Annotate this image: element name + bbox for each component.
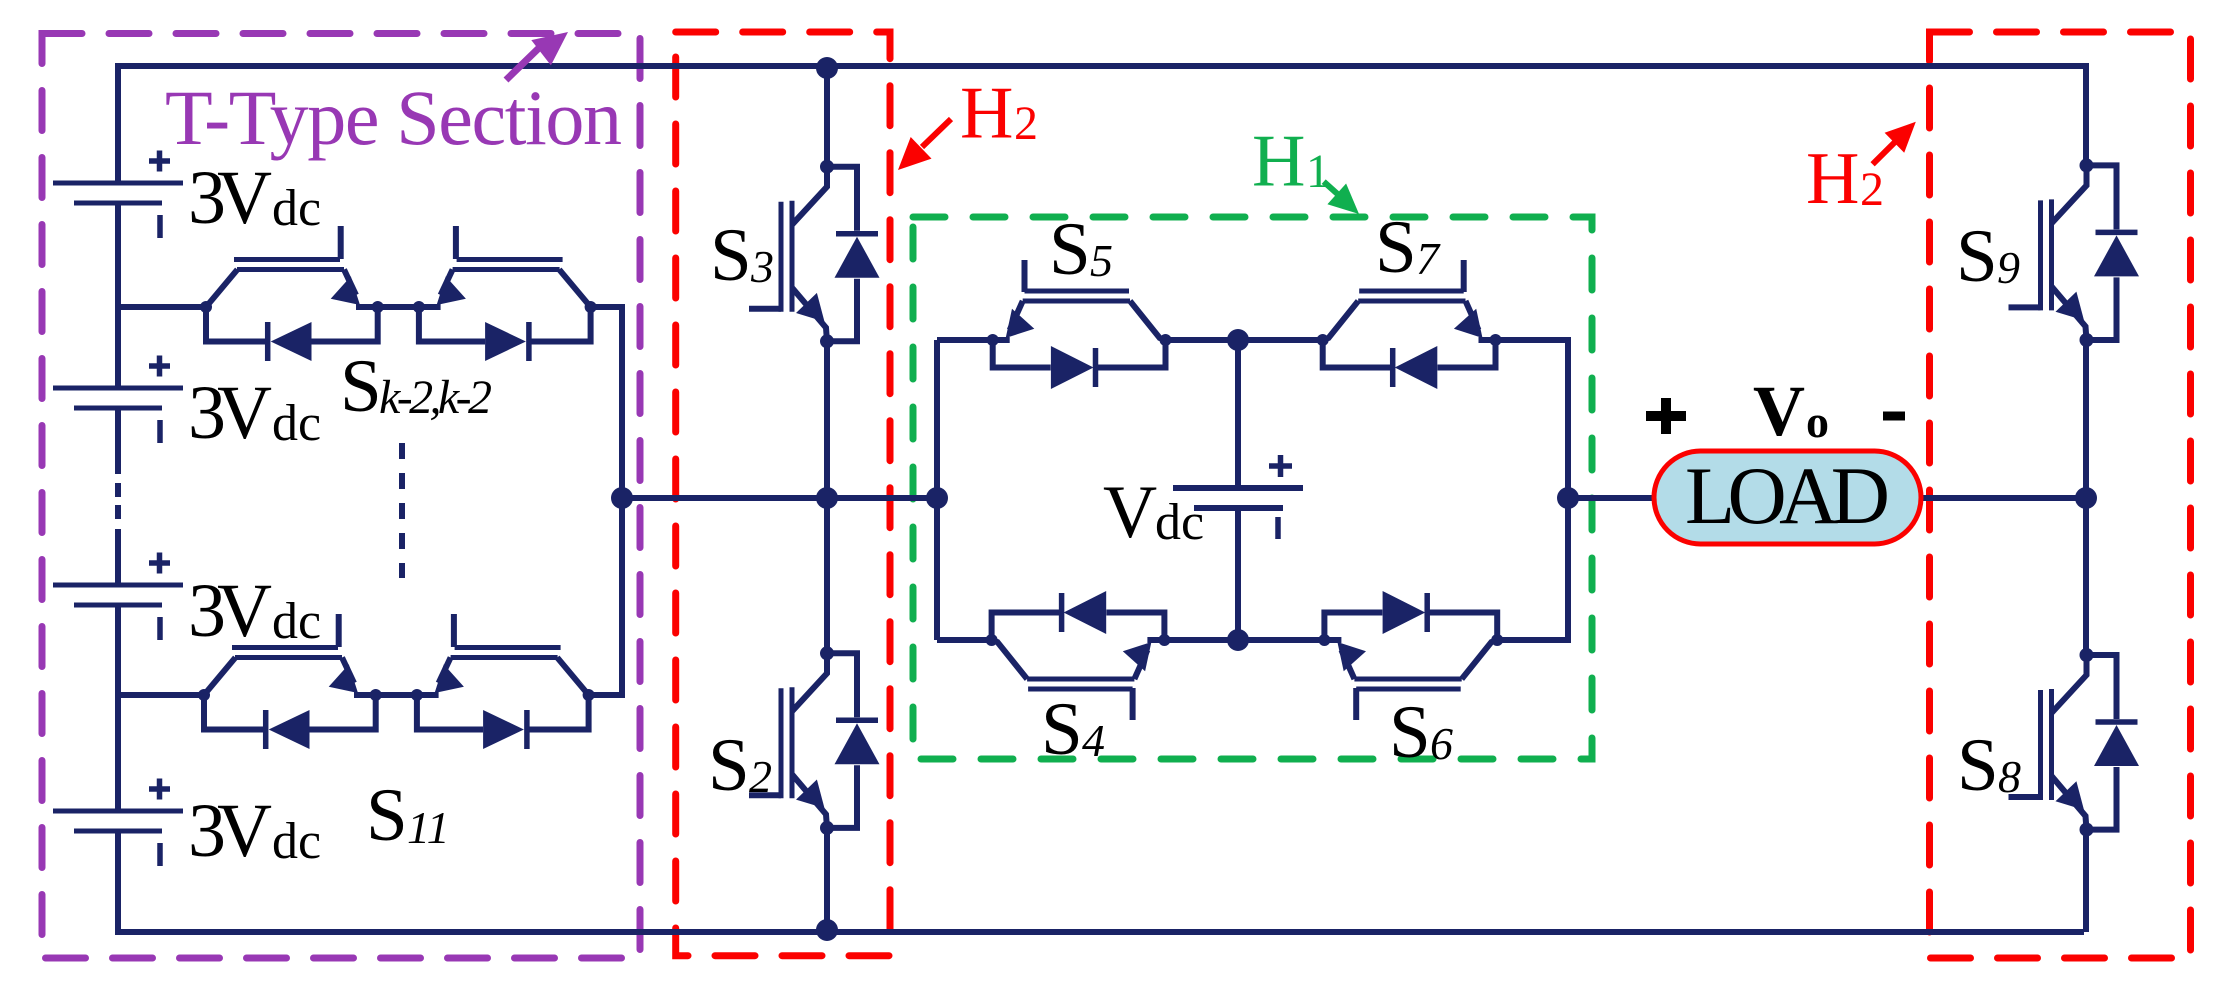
IGBT S9 with antiparallel diode bbox=[2009, 158, 2140, 347]
IGBT S7 with antiparallel diode bbox=[1317, 260, 1502, 389]
svg-text:H: H bbox=[1252, 121, 1305, 203]
wire S3-S2 leg middle bbox=[824, 341, 830, 654]
bidirectional switch S_k-2,k-2 bbox=[200, 226, 597, 361]
wire S8 leg bottom bbox=[2083, 830, 2089, 932]
IGBT S8 with antiparallel diode bbox=[2009, 648, 2140, 837]
battery B2 3Vdc bbox=[53, 356, 183, 444]
svg-text:2: 2 bbox=[1860, 163, 1884, 216]
svg-text:9: 9 bbox=[1997, 242, 2020, 293]
wire top rail bbox=[118, 63, 2086, 69]
svg-text:LOAD: LOAD bbox=[1685, 450, 1890, 541]
svg-text:3V: 3V bbox=[188, 371, 272, 455]
svg-text:V: V bbox=[1103, 471, 1157, 554]
wire H1 output to LOAD bbox=[1568, 495, 1654, 501]
IGBT S2 with antiparallel diode bbox=[749, 646, 880, 835]
svg-text:3V: 3V bbox=[188, 156, 272, 240]
svg-text:k-2,k-2: k-2,k-2 bbox=[379, 371, 492, 424]
svg-text:S: S bbox=[1375, 206, 1417, 289]
wire bottom rail bbox=[118, 929, 2084, 935]
svg-text:2: 2 bbox=[1014, 97, 1038, 150]
IGBT S3 with antiparallel diode bbox=[749, 160, 880, 349]
wire H1 top-left branch bbox=[937, 337, 993, 343]
svg-text:o: o bbox=[1806, 396, 1829, 447]
svg-text:2: 2 bbox=[749, 751, 772, 802]
svg-text:S: S bbox=[708, 724, 750, 807]
wire upper switch to T-rail bbox=[590, 304, 622, 310]
svg-text:S: S bbox=[1049, 208, 1091, 291]
IGBT S5 with antiparallel diode bbox=[987, 260, 1172, 389]
node H2 right midpoint bbox=[2075, 487, 2097, 509]
svg-text:6: 6 bbox=[1430, 718, 1453, 769]
wire T-type output to H2 leg and H1 bbox=[622, 495, 937, 501]
svg-text:3V: 3V bbox=[188, 789, 272, 873]
wire H1 bottom-right branch bbox=[1497, 637, 1568, 643]
wire H1 right vertical bbox=[1565, 337, 1571, 643]
node H1 left midpoint bbox=[926, 487, 948, 509]
svg-text:H: H bbox=[1806, 138, 1859, 220]
LOAD block bbox=[1654, 451, 1921, 544]
arrow H2 right pointer bbox=[1873, 142, 1895, 164]
wire lower switch to T-rail bbox=[588, 692, 622, 698]
wire tap to upper bidirectional switch bbox=[118, 304, 206, 310]
svg-text:3: 3 bbox=[750, 241, 774, 292]
node H1 right midpoint bbox=[1557, 487, 1579, 509]
svg-text:H: H bbox=[960, 73, 1013, 155]
wire tap to lower bidirectional switch bbox=[118, 692, 204, 698]
wire S9-S8 leg middle bbox=[2083, 340, 2089, 655]
wire left rail segment (B1 to B2) bbox=[115, 203, 121, 388]
wire S2 leg bottom bbox=[824, 829, 830, 932]
svg-text:S: S bbox=[1957, 724, 1999, 807]
svg-text:T-Type Section: T-Type Section bbox=[165, 74, 622, 161]
IGBT S6 with antiparallel diode bbox=[1318, 591, 1503, 720]
node T-type output bbox=[611, 487, 633, 509]
wire S3 leg top bbox=[824, 66, 830, 167]
svg-text:S: S bbox=[710, 214, 752, 297]
label + (Vo polarity) bbox=[1646, 398, 1686, 434]
wire left rail segment (B3 to B4, with T-tap) bbox=[115, 605, 121, 811]
svg-text:5: 5 bbox=[1090, 235, 1113, 286]
svg-text:3V: 3V bbox=[188, 569, 272, 653]
svg-text:dc: dc bbox=[272, 395, 321, 452]
H1 dashed boundary box bbox=[913, 217, 1592, 759]
svg-text:7: 7 bbox=[1416, 233, 1441, 284]
node H1 top center bbox=[1227, 329, 1249, 351]
arrow H2 left pointer bbox=[922, 119, 951, 147]
wire capacitor bottom lead bbox=[1235, 510, 1241, 640]
battery B4 3Vdc bbox=[53, 779, 183, 867]
wire H1 bottom-left branch bbox=[937, 637, 990, 643]
wire H1 top-middle branch bbox=[1166, 337, 1321, 343]
IGBT S4 with antiparallel diode bbox=[986, 591, 1171, 720]
bidirectional switch S11 bbox=[198, 614, 595, 749]
H2 left dashed boundary box bbox=[676, 32, 890, 956]
svg-text:S: S bbox=[340, 345, 382, 428]
wire H1 bottom-middle branch bbox=[1164, 637, 1324, 643]
dashed continuation marks bbox=[399, 443, 405, 578]
label - (Vo polarity) bbox=[1883, 412, 1905, 421]
svg-text:dc: dc bbox=[1155, 494, 1204, 551]
node bottom of S2 leg bbox=[816, 919, 838, 941]
svg-text:dc: dc bbox=[272, 593, 321, 650]
wire H1 top-right branch bbox=[1496, 337, 1569, 343]
svg-text:4: 4 bbox=[1082, 715, 1105, 766]
svg-text:dc: dc bbox=[272, 813, 321, 870]
svg-text:1: 1 bbox=[1306, 145, 1330, 198]
wire left rail segment (break to B3) bbox=[115, 529, 121, 585]
svg-text:S: S bbox=[366, 774, 408, 857]
arrow H1 pointer bbox=[1324, 182, 1342, 198]
svg-text:S: S bbox=[1389, 691, 1431, 774]
wire left rail segment (B4 to bottom corner) bbox=[115, 831, 121, 935]
node top of S3 leg bbox=[816, 57, 838, 79]
wire left rail segment (top corner to battery B1) bbox=[115, 63, 121, 183]
arrow T-Type Section pointer bbox=[506, 45, 542, 80]
wire capacitor top lead bbox=[1235, 340, 1241, 486]
wire left rail segment (B2 down to break) bbox=[115, 408, 121, 474]
wire S9 leg top bbox=[2083, 63, 2089, 165]
svg-text:S: S bbox=[1041, 688, 1083, 771]
wire H1 left vertical bbox=[934, 340, 940, 640]
battery B1 3Vdc bbox=[53, 151, 183, 239]
svg-text:S: S bbox=[1956, 215, 1998, 298]
svg-text:V: V bbox=[1753, 371, 1805, 451]
H2 right dashed boundary box bbox=[1930, 32, 2191, 958]
svg-text:dc: dc bbox=[272, 180, 321, 237]
svg-text:11: 11 bbox=[407, 802, 450, 853]
node H1 bottom center bbox=[1227, 629, 1249, 651]
T-Type Section dashed boundary box bbox=[42, 34, 640, 959]
capacitor Vdc bbox=[1173, 455, 1303, 539]
node S3-S2 midpoint bbox=[816, 487, 838, 509]
wire LOAD to H2 right leg bbox=[1921, 495, 2086, 501]
wire left rail dashed continuation bbox=[115, 483, 121, 497]
wire T-type right rail bbox=[619, 304, 625, 698]
battery B3 3Vdc bbox=[53, 553, 183, 641]
svg-text:8: 8 bbox=[1998, 751, 2021, 802]
